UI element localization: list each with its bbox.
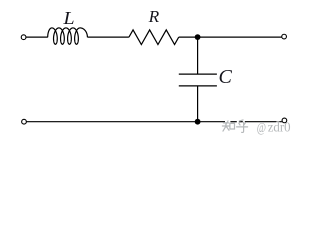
terminal top-right	[282, 34, 287, 39]
terminal top-left	[21, 35, 26, 40]
terminal bottom-right	[282, 118, 287, 123]
wire: junction down to capacitor top plate	[197, 37, 199, 74]
capacitor C top plate	[179, 73, 217, 75]
svg-text:zdr0: zdr0	[268, 119, 291, 135]
wire bottom rail (segmented where watermark halo erases it)	[26, 121, 225, 123]
svg-text:C: C	[219, 66, 233, 88]
inductor L	[48, 28, 88, 44]
capacitor C bottom plate	[179, 85, 217, 87]
wire	[239, 121, 243, 123]
wire: capacitor bottom plate down to bottom rail	[197, 86, 199, 122]
svg-text:R: R	[148, 7, 160, 26]
wire: inductor to resistor	[87, 36, 128, 38]
wire	[230, 121, 236, 123]
svg-text:L: L	[62, 9, 74, 29]
resistor R	[129, 30, 179, 45]
junction node top	[195, 34, 201, 40]
wire top-left: terminal to inductor	[26, 36, 48, 38]
junction node bottom	[195, 119, 201, 125]
watermark glyph 知 (hand-drawn strokes)	[222, 121, 234, 131]
wire: resistor to right terminal	[179, 36, 282, 38]
svg-text:@: @	[257, 120, 266, 136]
wire	[245, 121, 282, 123]
watermark glyph 乎 (hand-drawn strokes)	[237, 120, 248, 133]
terminal bottom-left	[22, 119, 27, 124]
